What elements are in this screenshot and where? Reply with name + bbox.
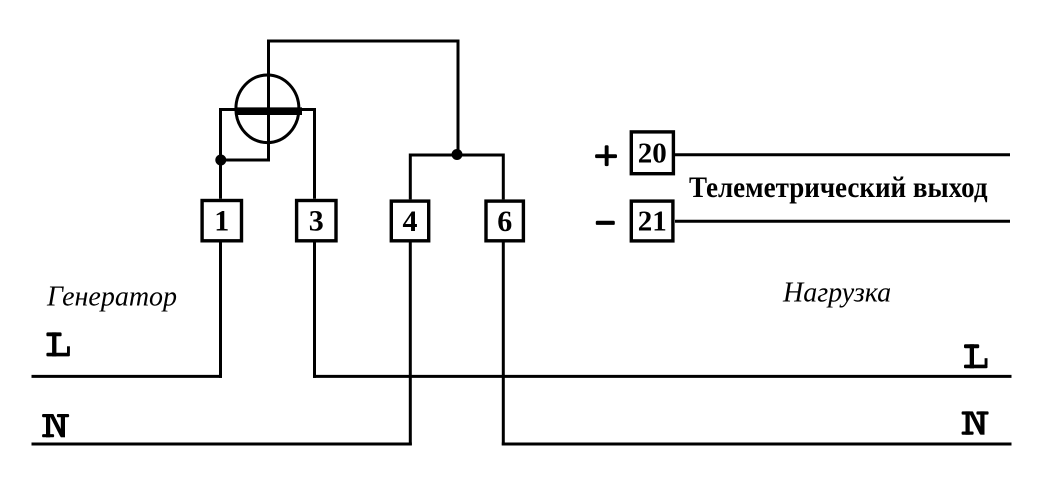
wire: current coil leads (terminal 1 lead to terminal 3 lead) [219,108,315,111]
wire: L line generator side [32,375,223,378]
wire: voltage coil top loop from node A up over to node B [221,41,459,160]
svg-text:Нагрузка: Нагрузка [782,278,891,309]
svg-text:3: 3 [309,205,324,238]
wire: telemetry minus output [675,220,1010,223]
label: L generator [46,332,70,356]
wire: terminal 6 to N load line [502,243,505,446]
svg-text:4: 4 [403,205,418,238]
terminal 1 box [202,201,241,241]
terminal 21 box [631,201,673,241]
wire: N line load side [502,443,1012,446]
wire: telemetry plus output [675,153,1010,156]
wire: drop to terminal 1 [219,108,222,199]
terminal 3 box [297,201,336,241]
svg-text:Генератор: Генератор [46,282,177,313]
meter measuring element U1 (circle) [236,75,299,143]
label: N load [962,411,989,434]
wire: drop to terminal 3 [313,108,316,199]
node A junction dot [215,155,226,166]
label: N generator [42,414,69,437]
svg-text:20: 20 [638,137,667,169]
wire: N line generator side [32,443,412,446]
terminal 4 box [391,201,428,241]
label: L load [964,344,988,368]
node B junction dot [452,149,463,160]
current coil bar [235,107,302,115]
terminal 6 box [486,201,523,241]
svg-text:1: 1 [214,205,229,238]
svg-text:6: 6 [497,205,512,238]
wire: terminal 3 to L load line [313,243,316,378]
plus sign for telemetry output [595,145,617,166]
svg-text:21: 21 [638,206,667,238]
wire: L line load side [313,375,1012,378]
minus sign for telemetry output [596,221,615,225]
wire: terminal 1 to L generator line [219,243,222,378]
wire: header to terminals 4 and 6 [410,155,503,199]
wire: terminal 4 to N generator line [409,243,412,446]
terminal 20 box [631,132,673,174]
svg-text:Телеметрический выход: Телеметрический выход [689,171,988,204]
